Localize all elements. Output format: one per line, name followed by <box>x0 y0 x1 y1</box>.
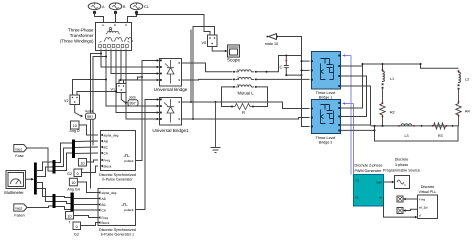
wire sel1 to mux3 a <box>56 143 73 163</box>
inductor L3 <box>398 124 422 127</box>
svg-text:V2: V2 <box>64 99 69 103</box>
wire DC bus to TLB2 C <box>302 118 310 127</box>
svg-text:R: R <box>242 110 245 115</box>
svg-text:997: 997 <box>130 102 136 106</box>
source block Discrete 3-phase Programmable Source <box>395 176 410 189</box>
wire Mutual L 1 to DC bus <box>256 56 302 72</box>
wire srcC to V0 <box>137 15 211 36</box>
wire gen1 pulses to UB1 gate <box>136 61 158 161</box>
svg-text:Vab1: Vab1 <box>15 147 22 151</box>
wire V1 tap2 <box>124 77 143 84</box>
wire F1 to gen2 freq <box>74 216 99 218</box>
mux selector2 <box>53 194 56 208</box>
wire demux to selector1 a <box>37 162 53 171</box>
display D2 <box>75 105 96 120</box>
label Discrete 2-phase PWM Generator <box>355 164 383 174</box>
multimeter M1 <box>6 171 26 189</box>
svg-text:Block: Block <box>104 165 112 169</box>
pulse generator P2 Discrete Synchronized 6-Pulse Generator 1 <box>98 189 136 226</box>
three-level bridge U3 <box>311 52 341 90</box>
resistor R <box>231 104 254 110</box>
goto tag wt <box>397 208 403 214</box>
wire V2 tap1 <box>73 80 107 96</box>
svg-text:AB: AB <box>104 140 108 144</box>
svg-text:Three-Level: Three-Level <box>316 136 336 140</box>
wire sel2 to mux4 a <box>56 197 71 198</box>
wire top bus to load <box>363 64 459 68</box>
svg-text:pulses: pulses <box>124 208 134 212</box>
wire srcA to transformer <box>95 13 104 23</box>
wire UB1 plus to Mutual L 1 <box>182 63 233 72</box>
svg-text:Freq: Freq <box>102 216 109 220</box>
wire PLL wt to tag <box>406 209 418 210</box>
mutual inductance Mutual L <box>233 68 257 88</box>
universal bridge U2 <box>160 98 182 126</box>
svg-text:C: C <box>279 65 282 70</box>
svg-text:Bridge 2: Bridge 2 <box>319 141 333 145</box>
demux Demux <box>34 163 37 195</box>
svg-text:P1: P1 <box>356 179 360 183</box>
from tag Fasen <box>14 204 27 211</box>
resistor R3 <box>432 123 454 129</box>
mux Mux1 <box>72 140 75 159</box>
svg-text:Scope: Scope <box>227 58 240 63</box>
mux selector1 <box>53 160 56 174</box>
three-level bridge U4 <box>311 100 341 134</box>
svg-text:Discrete 2-phase: Discrete 2-phase <box>355 164 383 168</box>
svg-text:10: 10 <box>71 181 75 185</box>
svg-text:L1: L1 <box>390 77 394 81</box>
wire xfmr b3 to UB2 B <box>116 51 157 113</box>
svg-text:Bridge 1: Bridge 1 <box>319 96 333 100</box>
svg-text:6-Pulse Generator: 6-Pulse Generator <box>102 178 133 182</box>
AC voltage source B <box>109 3 122 14</box>
wire UB2 minus to TLB2 B <box>182 118 310 120</box>
constant Ang G4 <box>69 178 77 186</box>
transformer T1 Three-Phase Transformer (Three Windings) <box>96 23 133 51</box>
goto tag freq <box>397 196 403 202</box>
scope Scope <box>228 45 240 57</box>
svg-text:G2: G2 <box>67 172 72 176</box>
svg-text:PL: PL <box>356 196 360 200</box>
inductor L1 <box>382 69 385 89</box>
svg-text:R2: R2 <box>390 111 395 115</box>
wire srcC to transformer <box>128 13 137 23</box>
wire R loop left <box>222 87 235 107</box>
wire srcB to transformer <box>115 13 117 23</box>
voltage measurement V0 <box>208 35 218 47</box>
wire multimeter to demux <box>26 178 32 180</box>
wire sel2 to mux4 c <box>56 207 71 210</box>
svg-text:Ang G4: Ang G4 <box>67 188 80 192</box>
label Three-Phase Transformer <box>60 28 94 44</box>
wire TLB1 out3 to TLB2 in3 <box>341 86 371 125</box>
wire V2 tap2 <box>77 92 116 96</box>
wire sel2 to mux4 b <box>56 202 71 204</box>
wire xfmr c2 to UB1 C <box>121 51 157 81</box>
label Three-Level Bridge 2 <box>316 136 336 145</box>
wire gen2 pulses to UB2 gate <box>136 100 158 210</box>
constant Ang D <box>71 121 80 129</box>
PWM generator block Discrete 2-phase PWM Generator <box>354 175 384 207</box>
svg-text:V1: V1 <box>110 88 115 92</box>
svg-text:0: 0 <box>77 172 79 176</box>
PLL block Discrete Virtual PLL <box>418 195 438 219</box>
wire sel1 to mux3 b <box>56 148 73 167</box>
pulse generator P1 Discrete Synchronized 6-Pulse Generator <box>101 131 136 171</box>
wire PWM Vref to source <box>384 181 393 183</box>
svg-text:Discrete Synchronized: Discrete Synchronized <box>99 228 136 232</box>
PWM gate line 1 <box>343 54 352 174</box>
AC voltage source A <box>88 3 101 14</box>
wire sel1 to mux3 c <box>56 153 73 171</box>
svg-text:BC: BC <box>102 203 107 207</box>
svg-text:Freq: Freq <box>419 198 426 202</box>
label Discrete 3-phase Programmable Source <box>383 158 420 173</box>
wire demux to selector2 b <box>37 189 53 202</box>
wire PWM w to PLL d <box>384 197 416 218</box>
svg-text:(Three Windings): (Three Windings) <box>60 39 94 44</box>
wire UB1 minus to Mutual L 2 <box>182 78 233 81</box>
wire node10 to DC bus <box>278 37 301 118</box>
svg-text:Three-Level: Three-Level <box>316 91 336 95</box>
wire mux2 to gen2 AB <box>74 198 98 200</box>
wire sync tap left A <box>91 54 102 189</box>
svg-text:wt_2pi: wt_2pi <box>419 206 428 210</box>
AC voltage source C1 <box>130 3 143 14</box>
svg-text:BC: BC <box>104 146 109 150</box>
svg-text:R3: R3 <box>438 134 443 138</box>
wire UB2 plus to TLB2 A <box>182 102 310 109</box>
wire mux2 to gen2 CA <box>74 209 98 211</box>
svg-text:0: 0 <box>76 225 78 229</box>
wire DC bus to TLB1 B <box>302 69 310 71</box>
wire xfmr a2 to UB1 A <box>101 51 157 68</box>
svg-text:alpha_deg: alpha_deg <box>104 134 119 138</box>
constant G2 <box>74 169 82 177</box>
svg-text:AB: AB <box>102 197 106 201</box>
wire xfmr a3 to UB2 A <box>106 51 157 107</box>
constant F1 <box>66 212 74 220</box>
wire F to gen1 freq <box>87 160 99 162</box>
svg-text:997: 997 <box>87 115 93 119</box>
PWM gate line 2 <box>343 102 354 174</box>
svg-text:10: 10 <box>73 124 77 128</box>
wire Mutual L 2 to bridge <box>256 78 310 80</box>
wire demux to selector1 b <box>37 167 53 177</box>
svg-text:alpha_deg: alpha_deg <box>102 191 117 195</box>
wire G2 to gen1 block <box>82 166 99 173</box>
wire sync tap left B <box>93 57 106 146</box>
svg-text:10: 10 <box>67 214 71 218</box>
wire Fase to mux1 <box>27 148 53 171</box>
svg-text:C: C <box>125 23 127 27</box>
svg-text:Three-Phase: Three-Phase <box>68 28 94 33</box>
svg-text:Universal Bridge1: Universal Bridge1 <box>152 128 189 133</box>
capacitor C <box>284 55 303 77</box>
svg-text:Multimeter: Multimeter <box>4 190 24 195</box>
svg-text:Vab2: Vab2 <box>15 207 22 211</box>
svg-text:R4: R4 <box>465 110 470 114</box>
voltage measurement V1 <box>117 84 127 93</box>
wire V0 to scope <box>212 47 225 52</box>
svg-text:2008: 2008 <box>129 96 136 100</box>
svg-text:G2: G2 <box>74 233 79 237</box>
svg-text:Programmable Source: Programmable Source <box>383 169 420 173</box>
svg-text:L3: L3 <box>405 134 409 138</box>
label Discrete Synchronized 6-Pulse Generator 1 <box>99 228 136 237</box>
resistor R2 <box>380 89 385 126</box>
label Discrete Virtual PLL <box>419 185 437 194</box>
wire DC bus to TLB1 A <box>302 60 310 62</box>
universal bridge U1 <box>160 59 182 87</box>
svg-text:Universal Bridge: Universal Bridge <box>154 87 188 92</box>
svg-text:Transformer: Transformer <box>70 33 94 38</box>
svg-text:3-phase: 3-phase <box>395 163 408 167</box>
label Three-Level Bridge 1 <box>316 91 336 100</box>
wire G3 to gen2 block <box>81 223 99 226</box>
svg-text:node 10: node 10 <box>265 42 278 46</box>
wire TLB2 out4 bottom loop <box>341 126 459 141</box>
constant F <box>79 159 87 167</box>
wire bottom branch <box>371 125 459 127</box>
svg-text:Ang D: Ang D <box>69 129 80 133</box>
svg-text:6-Pulse Generator 1: 6-Pulse Generator 1 <box>101 233 134 237</box>
svg-text:PWM Generator: PWM Generator <box>355 169 382 173</box>
wire R loop right <box>254 87 268 107</box>
wire Fasen to mux2 <box>27 206 53 208</box>
wire xfmr b2 to UB1 B <box>111 51 157 74</box>
wire V1 tap1 <box>119 80 121 84</box>
svg-text:Block: Block <box>102 221 110 225</box>
wire TLB1 out1 to TLB2 in1 <box>341 66 363 108</box>
wire mux1 to gen1 BC <box>75 146 98 149</box>
wire Ang G4 to gen2 alpha <box>77 182 98 193</box>
svg-text:V0: V0 <box>201 41 206 45</box>
svg-text:Goto1: Goto1 <box>85 109 94 113</box>
from tag Fase <box>14 145 27 152</box>
mux Mux2 <box>71 193 74 219</box>
svg-text:Mutual L: Mutual L <box>237 91 254 96</box>
wire stub L1 top <box>382 64 384 71</box>
voltage measurement V2 <box>70 95 80 105</box>
svg-text:pulses: pulses <box>124 159 134 163</box>
wire xfmr c3 to UB2 C <box>126 51 157 120</box>
svg-text:C1: C1 <box>144 5 149 9</box>
svg-text:Virtual PLL: Virtual PLL <box>419 190 437 194</box>
wire parallel measurement <box>190 30 192 103</box>
label Discrete Synchronized 6-Pulse Generator <box>99 173 136 182</box>
svg-text:L2: L2 <box>465 78 469 82</box>
svg-text:B: B <box>114 23 116 27</box>
display D1 <box>121 93 138 107</box>
wire mux1 to gen1 AB <box>75 140 98 143</box>
svg-text:10: 10 <box>80 161 84 165</box>
wire V0 tap2 down <box>193 27 215 120</box>
wire demux to selector2 a <box>37 183 53 197</box>
svg-text:Vref: Vref <box>376 181 382 185</box>
svg-text:Discrete Synchronized: Discrete Synchronized <box>99 173 136 177</box>
resistor R4 <box>456 90 461 127</box>
ground G1 <box>211 101 221 153</box>
svg-text:Fasen: Fasen <box>14 214 24 218</box>
svg-text:Fase: Fase <box>15 154 23 158</box>
gain node 10 <box>266 34 278 40</box>
svg-text:Discrete: Discrete <box>421 185 435 189</box>
wire Ang D to gen1 alpha <box>79 125 98 135</box>
svg-text:A: A <box>102 23 104 27</box>
wire PLL freq to tag <box>406 198 418 200</box>
wire mux2 to gen2 BC <box>74 204 98 206</box>
wire TLB1 out2 to TLB2 in2 <box>341 76 367 117</box>
wire mux1 to gen1 CA <box>75 152 98 155</box>
svg-text:Freq: Freq <box>104 159 111 163</box>
inductor L2 <box>458 70 461 90</box>
svg-text:Discrete: Discrete <box>395 158 409 162</box>
constant G3 <box>73 222 81 230</box>
